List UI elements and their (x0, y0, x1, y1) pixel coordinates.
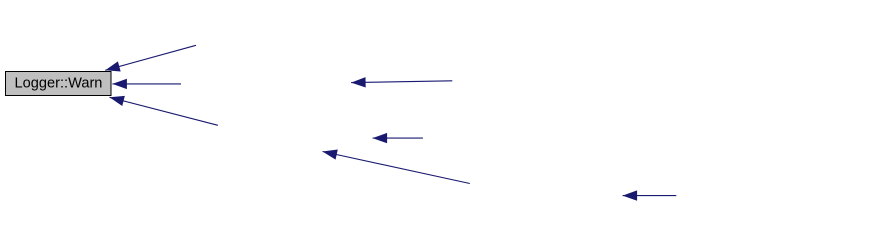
wire edge 7: bottom right horizontal arrow toward hidden node (623, 195, 677, 197)
svg-text:Logger::Warn: Logger::Warn (15, 76, 103, 92)
wire edge 4: caller (lower) to Logger::Warn bottom-right corner (110, 97, 218, 125)
wire edge 2: caller to Logger::Warn right edge (horizontal) (112, 83, 181, 85)
wire edge 1: caller (top right) to Logger::Warn top edge (105, 45, 196, 70)
wire edge 5: short horizontal arrow toward hidden node (373, 137, 423, 139)
node Logger::Warn (6, 72, 112, 96)
wire edge 3: mid horizontal arrow toward hidden node (351, 81, 452, 83)
wire edge 6: long diagonal arrow toward hidden node (323, 152, 470, 184)
